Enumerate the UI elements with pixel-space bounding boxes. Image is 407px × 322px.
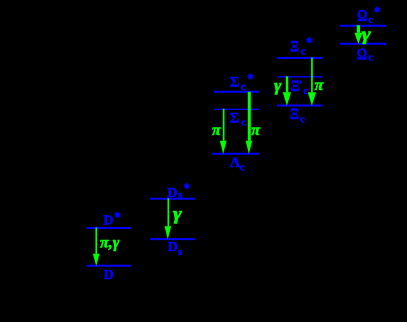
svg-text:Ξ: Ξ [291, 78, 300, 96]
svg-text:γ: γ [362, 25, 372, 44]
svg-text:Σ: Σ [230, 110, 240, 126]
svg-text:c: c [241, 82, 246, 93]
level line Omega_c [340, 43, 386, 45]
arrow Omega_c* to Omega_c (gamma) [354, 25, 362, 44]
level line D [87, 265, 132, 267]
label Sigma_c [230, 110, 247, 128]
label Lambda_c [230, 155, 245, 173]
arrow Xi_c* to Xi_c (pi) [308, 58, 316, 106]
label Ds [168, 240, 182, 258]
svg-text:Ξ: Ξ [290, 106, 299, 124]
svg-text:s: s [178, 247, 182, 258]
label Omega_c* [357, 7, 380, 26]
label Omega_c [357, 46, 374, 64]
svg-text:c: c [301, 47, 306, 58]
svg-text:c: c [303, 86, 308, 97]
label Sigma_c* [230, 74, 253, 94]
svg-text:D: D [168, 240, 178, 255]
label Xi_c [290, 106, 305, 125]
level line Sigma_c [214, 108, 259, 110]
label D* [103, 212, 120, 229]
svg-text:Σ: Σ [230, 75, 240, 91]
arrow Sigma_c to Lambda_c (pi) [220, 109, 227, 154]
svg-text:γ: γ [274, 75, 282, 95]
level line D* [87, 227, 132, 229]
label Ds* [167, 183, 189, 201]
svg-text:c: c [240, 162, 245, 173]
level line Ds [150, 238, 195, 240]
svg-text:D: D [104, 268, 114, 283]
level line Xi_c [277, 105, 322, 107]
level line Xi_c* [277, 57, 322, 59]
label Xi_c' [291, 78, 309, 98]
svg-text:π: π [212, 122, 222, 139]
level line Omega_c* [340, 25, 386, 27]
svg-text:Ω: Ω [357, 8, 367, 26]
svg-text:Ξ: Ξ [290, 38, 299, 56]
svg-text:D: D [103, 214, 113, 229]
svg-text:s: s [178, 190, 182, 201]
svg-text:Λ: Λ [230, 155, 241, 171]
arrow D* to D [93, 228, 100, 267]
arrow Sigma_c* to Lambda_c (pi) [246, 92, 253, 154]
level line Xi_c' [277, 76, 322, 78]
level line Ds* [150, 198, 195, 200]
svg-text:Ω: Ω [357, 46, 367, 64]
svg-text:γ: γ [173, 204, 183, 224]
svg-text:π: π [251, 122, 261, 139]
arrow Xi_c' to Xi_c (gamma) [283, 76, 291, 105]
label Xi_c* [290, 37, 312, 57]
level line Sigma_c* [214, 91, 259, 93]
arrow Ds* to Ds [165, 198, 172, 239]
svg-text:c: c [300, 114, 305, 125]
svg-text:c: c [241, 118, 246, 129]
level line Lambda_c [212, 153, 259, 155]
svg-text:π,γ: π,γ [100, 235, 120, 252]
svg-text:c: c [368, 53, 373, 64]
svg-text:π: π [315, 77, 325, 94]
